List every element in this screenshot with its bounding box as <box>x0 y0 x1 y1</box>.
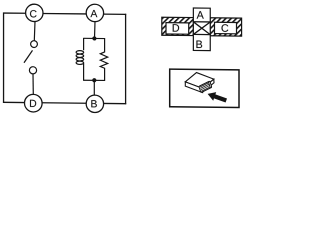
wire bottom bar of parallel branch <box>84 79 105 81</box>
connector pinout: left hatched bar <box>162 17 194 35</box>
junction dot bottom node <box>92 78 96 82</box>
wire top segment (node C to node A) <box>43 12 87 14</box>
wire node C down to switch upper contact <box>33 22 36 41</box>
wire bottom-right segment (right corner to node B) <box>103 102 126 104</box>
arrow pointing to connector plug <box>208 92 227 103</box>
wire bottom segment (node B to node D) <box>42 102 87 104</box>
junction dot top node <box>92 36 96 40</box>
pin A cavity box <box>193 8 210 22</box>
node C terminal circle <box>26 4 43 22</box>
pin B cavity box <box>193 34 210 50</box>
center keyway box with X <box>193 22 210 35</box>
pin C cavity box <box>215 22 237 34</box>
switch S1 lower contact circle <box>29 67 36 74</box>
pin D cavity box <box>166 23 189 35</box>
wire bottom junction down to node B <box>93 80 95 95</box>
node A terminal circle <box>86 4 103 22</box>
resistor R1 (zigzag, right branch) <box>100 38 107 81</box>
wire top-right segment (node A to right corner) <box>103 13 126 15</box>
connector body front face <box>185 82 202 93</box>
connector body right end face <box>203 79 214 92</box>
wire top bar of parallel branch <box>84 37 105 39</box>
connector pinout: right hatched bar <box>210 18 242 36</box>
connector view callout box <box>170 69 239 107</box>
wire node A down to top junction <box>94 22 97 39</box>
connector plug face with terminal stripes <box>199 81 211 92</box>
node D terminal circle <box>25 94 43 112</box>
wire left edge vertical <box>3 12 5 103</box>
switch S1 blade (open) <box>24 50 33 63</box>
wire top-left segment (left corner to node C) <box>4 12 26 14</box>
node B terminal circle <box>86 95 103 113</box>
inductor L1 (coil, left branch) <box>76 38 84 81</box>
wire right edge vertical <box>125 14 127 105</box>
connector body top face <box>185 72 214 88</box>
wire switch lower contact down to node D <box>32 74 34 95</box>
switch S1 upper contact circle <box>31 41 38 48</box>
wire bottom-left segment (node D to left corner) <box>3 101 25 103</box>
